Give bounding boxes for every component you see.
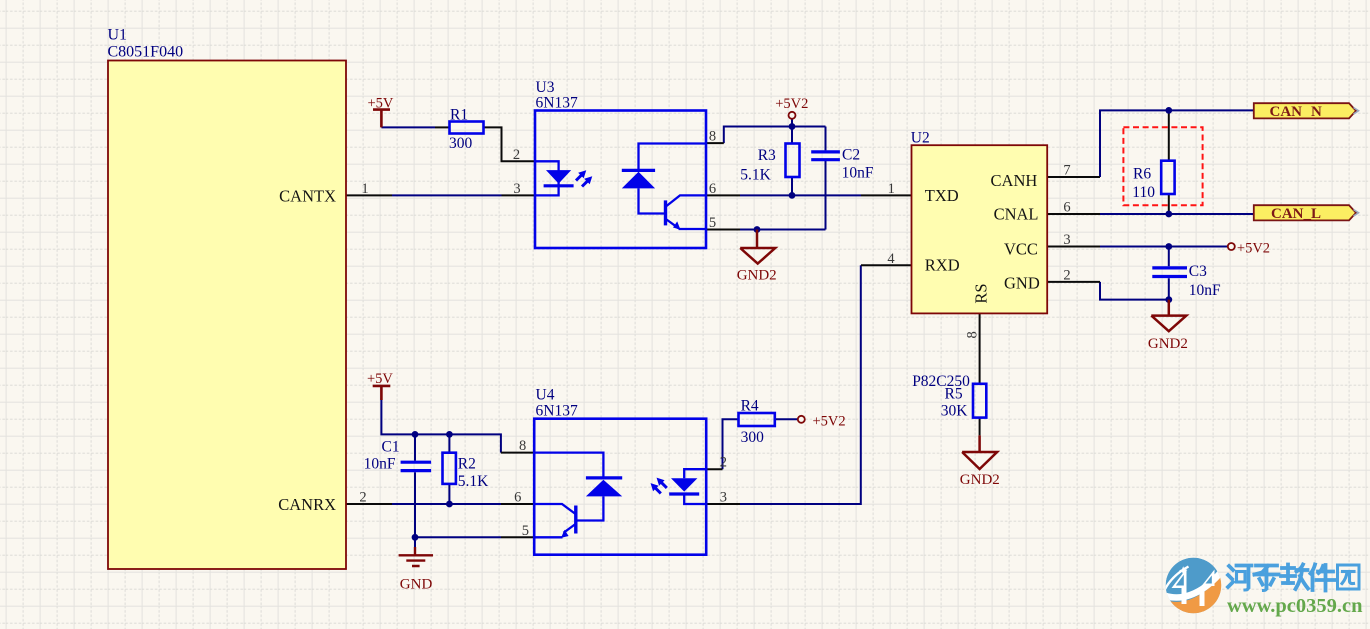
svg-text:+5V: +5V: [368, 96, 394, 112]
svg-text:www.pc0359.cn: www.pc0359.cn: [1227, 595, 1363, 617]
svg-text:GND: GND: [400, 577, 433, 593]
svg-text:R2: R2: [458, 456, 476, 473]
svg-text:CANRX: CANRX: [278, 495, 336, 514]
svg-text:2: 2: [720, 455, 727, 471]
svg-text:U2: U2: [911, 130, 930, 147]
svg-text:CNAL: CNAL: [994, 204, 1039, 223]
svg-text:6: 6: [514, 490, 521, 506]
svg-text:10nF: 10nF: [364, 456, 396, 473]
svg-text:300: 300: [449, 135, 473, 152]
svg-text:+5V2: +5V2: [775, 96, 808, 112]
svg-text:GND: GND: [1004, 273, 1040, 292]
svg-text:8: 8: [519, 438, 526, 454]
svg-text:1: 1: [361, 181, 368, 197]
svg-text:2: 2: [1063, 267, 1070, 283]
svg-text:RXD: RXD: [925, 256, 960, 275]
svg-text:5: 5: [709, 215, 716, 231]
svg-text:GND2: GND2: [737, 268, 777, 284]
svg-text:R4: R4: [741, 398, 759, 415]
svg-text:R5: R5: [945, 386, 963, 403]
svg-text:5.1K: 5.1K: [740, 167, 771, 184]
svg-text:CANH: CANH: [991, 171, 1038, 190]
svg-text:5.1K: 5.1K: [458, 473, 489, 490]
svg-text:R1: R1: [450, 107, 468, 124]
svg-text:110: 110: [1132, 184, 1155, 201]
svg-text:U4: U4: [536, 387, 555, 404]
svg-text:C3: C3: [1189, 263, 1207, 280]
svg-text:8: 8: [709, 129, 716, 145]
svg-text:1: 1: [888, 181, 895, 197]
svg-text:300: 300: [741, 429, 765, 446]
svg-text:U3: U3: [536, 79, 555, 96]
svg-text:10nF: 10nF: [1189, 282, 1221, 299]
svg-text:C1: C1: [382, 439, 400, 456]
svg-text:6N137: 6N137: [536, 95, 578, 112]
svg-text:GND2: GND2: [960, 472, 1000, 488]
svg-text:+5V2: +5V2: [1237, 241, 1270, 257]
svg-text:CAN_L: CAN_L: [1271, 206, 1321, 222]
svg-text:RS: RS: [972, 283, 991, 303]
svg-text:6N137: 6N137: [536, 403, 578, 420]
svg-text:3: 3: [720, 490, 727, 506]
svg-text:GND2: GND2: [1148, 336, 1188, 352]
svg-text:4: 4: [887, 251, 895, 267]
svg-text:R6: R6: [1133, 166, 1151, 183]
svg-text:10nF: 10nF: [842, 165, 874, 182]
svg-text:TXD: TXD: [925, 186, 959, 205]
svg-text:6: 6: [1063, 200, 1070, 216]
svg-text:U1: U1: [108, 27, 128, 44]
svg-text:7: 7: [1063, 163, 1070, 179]
svg-text:C8051F040: C8051F040: [108, 44, 184, 61]
svg-text:6: 6: [709, 181, 716, 197]
svg-text:3: 3: [513, 181, 520, 197]
svg-text:+5V2: +5V2: [813, 413, 846, 429]
svg-text:R3: R3: [758, 147, 776, 164]
svg-text:N: N: [1311, 104, 1322, 120]
svg-text:5: 5: [522, 523, 529, 539]
svg-text:CAN: CAN: [1270, 104, 1303, 120]
svg-text:3: 3: [1063, 232, 1070, 248]
svg-text:C2: C2: [842, 147, 860, 164]
svg-text:2: 2: [359, 490, 366, 506]
svg-text:2: 2: [513, 147, 520, 163]
svg-text:VCC: VCC: [1004, 239, 1038, 258]
svg-text:30K: 30K: [941, 402, 969, 419]
svg-text:CANTX: CANTX: [279, 186, 336, 205]
svg-text:+5V: +5V: [367, 371, 393, 387]
svg-text:8: 8: [965, 331, 981, 338]
